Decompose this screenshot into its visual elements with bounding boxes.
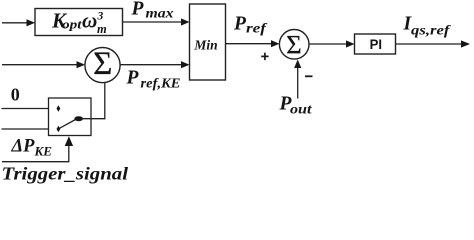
block: PI controller xyxy=(355,34,396,54)
wire: Pref,KE from summing junction 1 to Min block xyxy=(120,61,189,68)
label: Pmax xyxy=(131,0,174,20)
label: zero input xyxy=(11,85,20,105)
svg-text:0: 0 xyxy=(11,85,20,105)
wire: Pmax from Kopt block to Min block xyxy=(123,18,190,25)
svg-text:max: max xyxy=(146,5,174,20)
wire: rotor speed input into Kopt block xyxy=(2,19,35,26)
svg-text:P: P xyxy=(131,0,145,19)
svg-text:PI: PI xyxy=(370,36,382,52)
block: MPPT gain Kopt*wm^3 xyxy=(35,9,123,37)
svg-text:ref: ref xyxy=(246,21,268,36)
wire: delta P KE input into switch lower contact xyxy=(2,128,56,130)
switch lower contact (diamond) xyxy=(57,126,61,133)
svg-text:Min: Min xyxy=(193,37,217,52)
block: Min selector xyxy=(190,4,226,80)
label: minus sign at summing junction 2 xyxy=(305,75,313,77)
wire: trigger signal into switch box bottom xyxy=(2,136,73,162)
svg-text:qs,ref: qs,ref xyxy=(411,22,451,37)
label: delta P KE xyxy=(11,137,53,159)
svg-text:out: out xyxy=(290,102,313,117)
label: Iqs,ref xyxy=(403,14,452,38)
wire: Pout feedback into summing junction 2 xyxy=(294,60,301,99)
switch upper contact (diamond) xyxy=(57,105,61,112)
block: switch box xyxy=(49,98,92,136)
svg-text:Trigger_signal: Trigger_signal xyxy=(2,164,129,184)
wire: Iqs,ref output from PI block xyxy=(396,40,471,47)
svg-text:opt: opt xyxy=(62,17,82,32)
svg-text:Σ: Σ xyxy=(93,46,112,82)
summing junction 2 (sigma) xyxy=(279,29,309,59)
svg-text:P: P xyxy=(126,68,140,89)
wire: Pref from Min block to summing junction 2 xyxy=(226,40,280,47)
svg-text:3: 3 xyxy=(97,11,104,23)
summing junction 1 (sigma) xyxy=(85,46,120,83)
svg-text:KE: KE xyxy=(33,144,52,159)
wire: error signal from summing junction 2 to PI block xyxy=(309,40,355,47)
svg-text:Σ: Σ xyxy=(286,29,301,59)
switch arm xyxy=(60,120,76,129)
wire: zero input into switch upper contact xyxy=(2,108,56,110)
svg-text:ref,KE: ref,KE xyxy=(141,76,181,91)
wire: power reference input into summing junction 1 xyxy=(2,61,85,68)
label: Pref,KE xyxy=(126,68,181,91)
label: Pref xyxy=(233,13,268,35)
svg-text:ω: ω xyxy=(82,9,97,33)
label: plus sign at summing junction 2 xyxy=(261,53,268,60)
wire: switch output up to summing junction 1 xyxy=(83,83,105,119)
svg-text:m: m xyxy=(97,22,107,36)
svg-text:P: P xyxy=(233,13,247,34)
svg-text:ΔP: ΔP xyxy=(11,137,36,157)
label: Pout xyxy=(279,94,313,117)
switch pivot (ellipse) xyxy=(74,116,83,121)
label: Trigger_signal xyxy=(2,164,129,184)
